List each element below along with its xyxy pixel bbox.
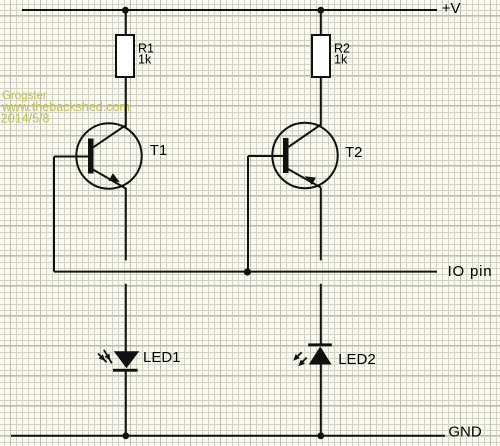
wire: T2 emitter down (below IO crossing) to LED2 xyxy=(320,284,322,344)
LED1 light arrow b xyxy=(104,350,112,364)
wire: T1 emitter down (below IO crossing) to LED1 xyxy=(125,284,127,352)
LED2 cathode bar xyxy=(308,343,332,346)
svg-text:T1: T1 xyxy=(150,142,168,159)
LED2 light arrow b xyxy=(298,358,306,367)
wire: T1 emitter down (above IO crossing) xyxy=(125,188,127,260)
LED1 cathode bar xyxy=(113,369,138,372)
wire: R2 to T2 collector xyxy=(320,77,322,126)
node: LED2 / GND junction xyxy=(317,432,324,439)
wire: +V to R2 xyxy=(320,10,322,35)
svg-text:IO pin: IO pin xyxy=(448,263,493,280)
LED2 light arrow a xyxy=(293,352,302,361)
transistor T2 xyxy=(272,123,337,188)
svg-text:GND: GND xyxy=(448,424,482,441)
resistor R1 xyxy=(116,35,134,77)
svg-text:2014/5/8: 2014/5/8 xyxy=(1,112,50,126)
+V rail wire xyxy=(22,9,437,11)
node: +V / R1 junction xyxy=(122,7,129,14)
LED1 light arrow a xyxy=(98,354,107,363)
wire: T2 base down to IO pin junction xyxy=(247,156,249,272)
svg-text:LED2: LED2 xyxy=(338,351,376,368)
svg-text:LED1: LED1 xyxy=(143,349,181,366)
LED1 diode triangle xyxy=(114,351,139,368)
wire: R1 to T1 collector xyxy=(125,77,127,127)
LED2 diode triangle xyxy=(309,346,332,364)
node: IO pin / T2 base junction xyxy=(244,268,251,275)
node: LED1 / GND junction xyxy=(122,432,129,439)
svg-text:T2: T2 xyxy=(345,144,363,161)
transistor T1 xyxy=(76,123,141,188)
svg-text:1k: 1k xyxy=(334,53,348,67)
wire: T1 base down to IO pin xyxy=(53,157,55,272)
GND rail wire xyxy=(11,435,445,437)
wire: LED2 cathode to GND xyxy=(320,365,322,436)
IO pin wire xyxy=(54,271,437,273)
wire: T1 base horizontal xyxy=(54,156,89,158)
svg-text:+V: +V xyxy=(442,0,461,17)
wire: LED1 cathode to GND xyxy=(125,372,127,436)
svg-text:1k: 1k xyxy=(138,53,152,67)
resistor R2 xyxy=(312,35,330,77)
wire: T2 emitter down (above IO crossing) xyxy=(320,188,322,261)
wire: +V to R1 xyxy=(125,10,127,35)
wire: T2 base horizontal xyxy=(248,155,284,157)
node: +V / R2 junction xyxy=(317,7,324,14)
